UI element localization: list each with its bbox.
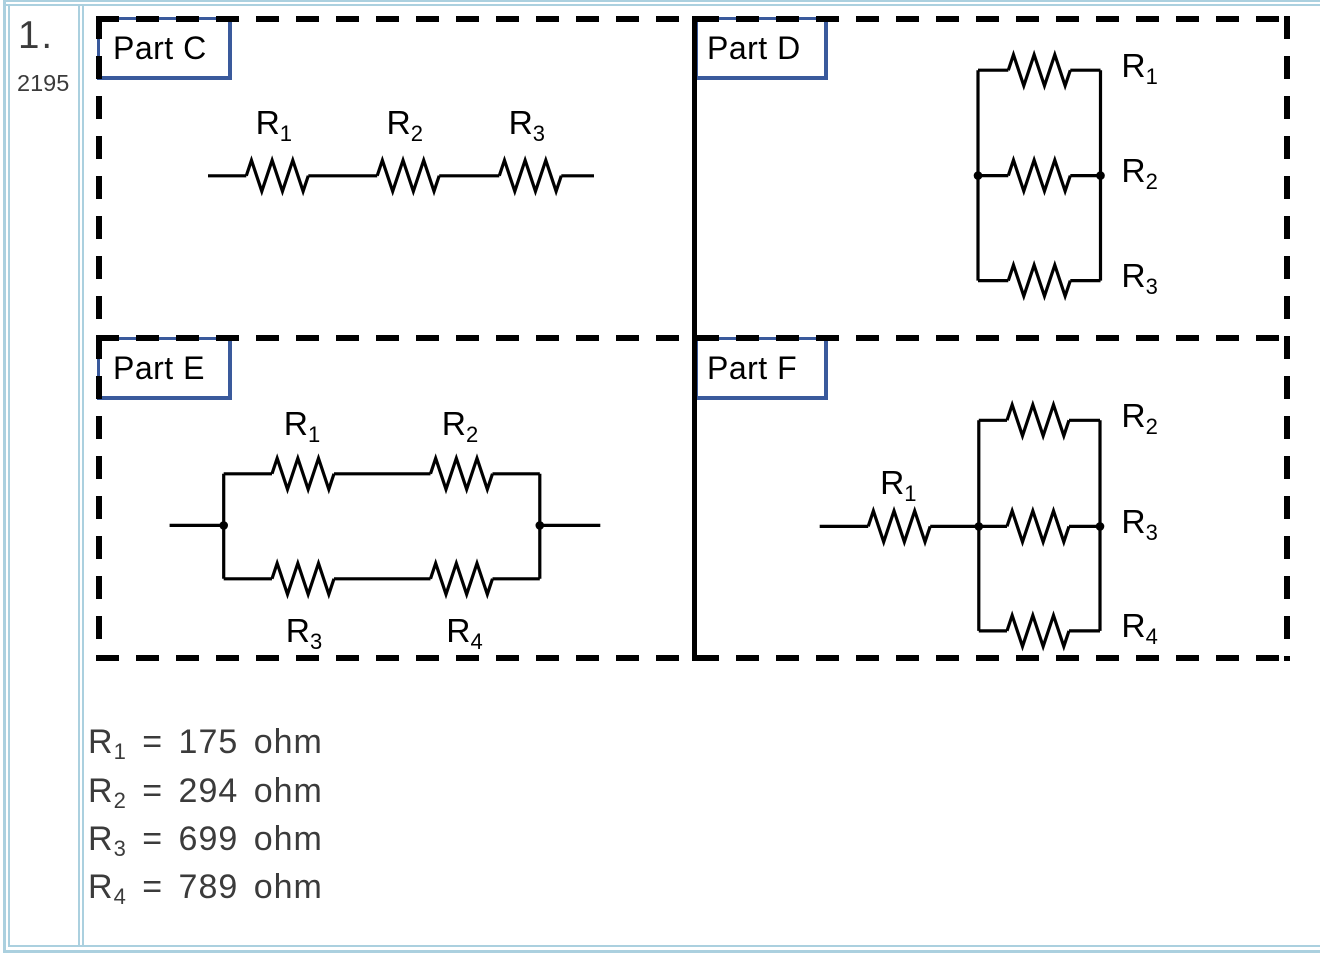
wire bbox=[224, 472, 272, 475]
resistor R2 (Part D) bbox=[1008, 160, 1070, 191]
resistor R2 (Part C) bbox=[377, 160, 439, 191]
label R2 (Part E) bbox=[442, 408, 478, 442]
label R4 (Part F) bbox=[1121, 610, 1157, 644]
Part C label box bbox=[97, 17, 232, 80]
wire bbox=[1070, 69, 1100, 72]
dashed outer frame of worksheet bbox=[96, 16, 1290, 661]
label R3 (Part C) bbox=[509, 107, 545, 141]
wire bbox=[308, 174, 377, 177]
wire bbox=[561, 174, 594, 177]
question number bbox=[18, 17, 54, 56]
resistor R1 (Part E) bbox=[272, 458, 334, 489]
wire bbox=[1069, 629, 1100, 632]
wire bbox=[224, 577, 272, 580]
wire: right bus bbox=[1098, 420, 1101, 631]
wire: right bus bbox=[1099, 70, 1102, 280]
resistor R3 (Part D) bbox=[1008, 265, 1070, 296]
node (Part E right junction) bbox=[536, 521, 545, 530]
Part E label box bbox=[97, 337, 232, 400]
resistor R2 (Part E) bbox=[431, 458, 493, 489]
wire bbox=[1069, 419, 1100, 422]
wire bbox=[978, 174, 1008, 177]
resistor R3 (Part C) bbox=[499, 160, 561, 191]
label R1 (Part D) bbox=[1121, 50, 1157, 84]
wire: right bus bbox=[538, 474, 541, 579]
resistor R1 (Part D) bbox=[1008, 55, 1070, 86]
resistor R1 (Part F) bbox=[868, 511, 930, 542]
wire bbox=[439, 174, 499, 177]
label R3 (Part F) bbox=[1121, 506, 1157, 540]
wire: left bus bbox=[977, 420, 980, 631]
resistor values text bbox=[88, 718, 323, 911]
label R2 (Part F) bbox=[1121, 400, 1157, 434]
label R1 (Part F) bbox=[880, 467, 916, 501]
Part F: left lead wire bbox=[820, 525, 869, 528]
wire bbox=[493, 472, 540, 475]
label R1 (Part E) bbox=[284, 408, 320, 442]
resistor R1 (Part C) bbox=[246, 160, 308, 191]
wire bbox=[978, 279, 1008, 282]
Part D: left bus wire bbox=[976, 70, 979, 280]
Part C: wire bbox=[208, 174, 246, 177]
wire bbox=[979, 419, 1007, 422]
wire bbox=[493, 577, 540, 580]
wire bbox=[978, 69, 1008, 72]
wire bbox=[930, 525, 1007, 528]
question id bbox=[17, 72, 69, 96]
node (Part F right junction) bbox=[1096, 522, 1105, 531]
Part D label box bbox=[695, 17, 828, 80]
node (Part D right junction) bbox=[1096, 171, 1105, 180]
node (Part F left junction) bbox=[975, 522, 984, 531]
resistor R3 (Part F) bbox=[1007, 511, 1069, 542]
label R3 (Part D) bbox=[1121, 260, 1157, 294]
wire: left bus bbox=[222, 474, 225, 579]
wire bbox=[1070, 174, 1100, 177]
node (Part D left junction) bbox=[974, 171, 983, 180]
wire bbox=[979, 629, 1007, 632]
node (Part E left junction) bbox=[219, 521, 228, 530]
label R2 (Part C) bbox=[387, 107, 423, 141]
Part F label box bbox=[695, 337, 828, 400]
resistor R4 (Part E) bbox=[431, 563, 493, 594]
wire bbox=[334, 577, 431, 580]
Part E: left lead wire bbox=[170, 524, 224, 527]
wire bbox=[1070, 279, 1100, 282]
wire: right lead bbox=[540, 524, 601, 527]
resistor R2 (Part F) bbox=[1007, 405, 1069, 436]
label R3 (Part E) bbox=[286, 615, 322, 649]
label R1 (Part C) bbox=[256, 107, 292, 141]
light blue table chrome (decorative) bbox=[3, 0, 1320, 2]
resistor R4 (Part F) bbox=[1007, 615, 1069, 646]
wire bbox=[334, 472, 431, 475]
resistor R3 (Part E) bbox=[272, 563, 334, 594]
label R2 (Part D) bbox=[1121, 155, 1157, 189]
label R4 (Part E) bbox=[446, 615, 482, 649]
wire bbox=[1069, 525, 1100, 528]
solid center divider bbox=[692, 16, 697, 661]
